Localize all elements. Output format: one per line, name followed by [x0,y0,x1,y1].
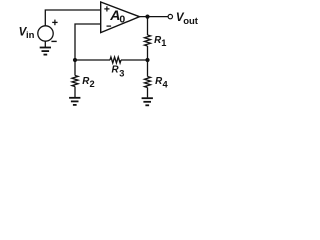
node output junction [145,15,149,19]
ground under source [40,48,51,55]
source minus mark [51,40,56,42]
label Vout [176,12,199,27]
wire node X to R4 [147,60,149,77]
svg-text:1: 1 [161,38,166,48]
ground under R4 [142,98,153,105]
wire source bottom to ground [44,41,46,47]
op-amp minus input mark [107,25,112,27]
wire output node to R1 [147,17,149,35]
op-amp A0 [101,2,140,33]
svg-text:4: 4 [163,80,169,90]
wire R1 to node X [147,46,149,60]
svg-text:out: out [183,16,199,27]
label R2 [82,76,94,89]
wire inverting input [75,24,101,60]
op-amp plus input mark [104,6,109,11]
svg-text:3: 3 [119,68,124,78]
node Y junction (inv input/R2/R3) [73,58,77,62]
label A0 [109,7,125,26]
wire source top to op-amp + input [45,10,100,26]
source plus mark [52,20,57,26]
wire node Y to R3 [75,59,110,61]
wire R2 to ground [74,87,76,98]
resistor R4 [145,77,151,88]
wire node Y to R2 [74,60,76,76]
wire op-amp output [140,16,169,18]
resistor R3 [110,57,121,63]
wire R3 to node X [121,59,148,61]
wire R4 to ground [147,88,149,98]
svg-text:2: 2 [90,79,95,89]
label R4 [155,76,168,90]
ground under R2 [69,98,80,105]
resistor R1 [145,35,151,46]
label R1 [154,35,166,48]
node X junction (R1/R3/R4) [145,58,149,62]
label R3 [112,65,125,79]
svg-text:0: 0 [119,13,125,25]
resistor R2 [72,76,78,87]
source VS (Vin) [38,26,53,41]
label Vin [19,26,35,41]
svg-text:in: in [26,30,35,41]
terminal Vout (open circle) [168,14,172,18]
